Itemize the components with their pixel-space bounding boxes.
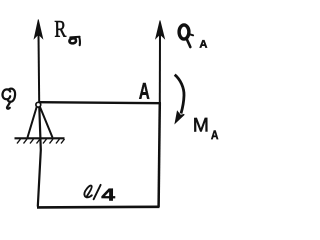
frame member: left column D to bottom corner — [38, 104, 41, 207]
force arrow Q_A (head) — [156, 21, 165, 39]
bottom member (with dimension ℓ/4) — [37, 206, 160, 209]
label R subscript script-D — [69, 37, 79, 45]
pin circle at D — [36, 102, 41, 107]
force arrow R_D (head) — [34, 20, 43, 39]
label Q right tick — [190, 34, 193, 35]
svg-text:A: A — [199, 39, 207, 51]
pin support triangle — [28, 107, 53, 138]
moment arc M_A — [175, 75, 184, 114]
svg-text:R: R — [54, 17, 66, 43]
svg-text:A: A — [139, 78, 150, 104]
svg-text:A: A — [211, 128, 219, 142]
label Q (hand-drawn heavy) — [179, 25, 189, 39]
dimension label slash — [94, 185, 101, 199]
force arrow Q_A (shaft) — [159, 34, 161, 103]
ground hatching — [17, 139, 65, 144]
ground line — [15, 137, 65, 139]
beam D-A (top member) — [39, 102, 161, 103]
node label script-D (support name) — [2, 89, 15, 109]
label Q tail — [187, 39, 191, 48]
svg-text:4: 4 — [101, 185, 115, 205]
moment arrowhead — [175, 112, 184, 123]
svg-text:M: M — [193, 114, 209, 136]
frame member: right column A to bottom corner — [159, 103, 160, 207]
dimension label script ell — [84, 186, 91, 198]
force arrow R_D (shaft) — [38, 34, 41, 103]
